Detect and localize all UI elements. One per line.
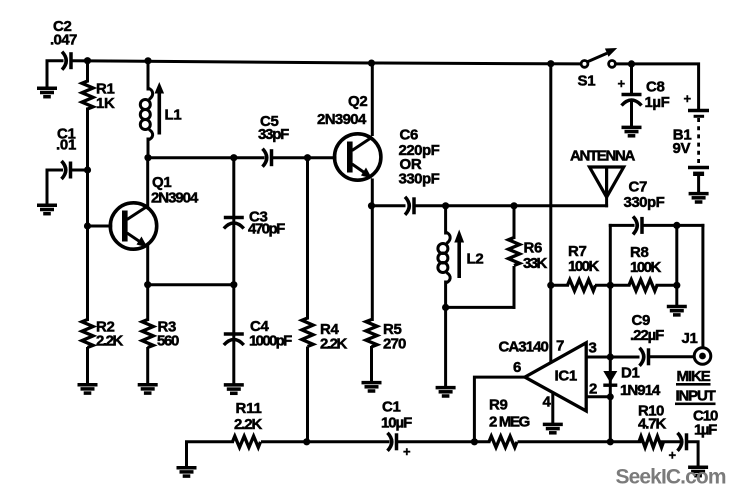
svg-text:.047: .047 xyxy=(50,32,77,49)
svg-text:+: + xyxy=(669,448,677,463)
wire C9 to J1 xyxy=(650,355,695,358)
svg-text:C7: C7 xyxy=(629,179,648,196)
svg-text:3: 3 xyxy=(589,340,597,357)
svg-text:2.2K: 2.2K xyxy=(234,416,262,433)
wire C1 left lead and ground drop xyxy=(47,170,62,204)
wire Q1 emitter drop xyxy=(146,246,149,285)
svg-text:33K: 33K xyxy=(523,255,547,272)
svg-text:.22µF: .22µF xyxy=(630,327,664,344)
svg-text:C6: C6 xyxy=(400,127,419,144)
svg-text:330pF: 330pF xyxy=(624,194,665,211)
wire output row y=205.8 xyxy=(372,204,405,207)
svg-text:4.7K: 4.7K xyxy=(638,416,666,433)
svg-text:R6: R6 xyxy=(524,240,543,257)
svg-text:Q2: Q2 xyxy=(348,93,367,110)
resistor R1 xyxy=(82,81,115,113)
ground C10 xyxy=(688,467,708,475)
battery B1 xyxy=(673,91,710,174)
node MIKE INPUT label xyxy=(675,368,716,405)
wire antenna lead xyxy=(605,197,608,206)
resistor R5 xyxy=(366,320,406,353)
svg-text:IC1: IC1 xyxy=(555,368,577,385)
wire op-amp pin 4 ground xyxy=(551,393,554,423)
svg-text:2.2K: 2.2K xyxy=(320,336,347,353)
ground C1 xyxy=(37,205,57,213)
svg-text:2: 2 xyxy=(589,381,597,398)
wire Q1 base xyxy=(88,225,111,228)
ground L2 xyxy=(436,388,456,396)
svg-text:C8: C8 xyxy=(646,79,665,96)
capacitor C1 10uF xyxy=(381,399,412,460)
svg-text:J1: J1 xyxy=(682,330,698,347)
capacitor C7 xyxy=(624,179,665,235)
wire op-amp pin 2 xyxy=(586,395,610,398)
wire top rail right of S1 xyxy=(616,64,699,108)
svg-text:2N3904: 2N3904 xyxy=(317,111,367,128)
svg-text:4: 4 xyxy=(543,394,552,411)
ground R5 xyxy=(362,383,382,391)
wire bottom rail xyxy=(187,442,233,466)
wire V+ column to op-amp pin 7 xyxy=(549,64,552,362)
wire L2 leads xyxy=(444,206,447,233)
wire op-amp pin 6 feedback xyxy=(474,377,525,442)
resistor R10 xyxy=(638,403,666,448)
wire oscillator row y=158 xyxy=(148,156,263,159)
wire C4 branch xyxy=(232,285,235,383)
svg-text:1K: 1K xyxy=(96,95,115,112)
wire R4 branch xyxy=(306,158,309,318)
wire R1/R2 vertical column xyxy=(86,61,89,81)
wire op-amp pin 3 xyxy=(586,356,638,359)
svg-text:R9: R9 xyxy=(489,397,508,414)
wire R6 leads xyxy=(513,206,516,238)
svg-text:10µF: 10µF xyxy=(381,415,412,432)
svg-text:2 MEG: 2 MEG xyxy=(489,414,530,431)
svg-text:R11: R11 xyxy=(236,400,262,417)
svg-text:C1: C1 xyxy=(382,399,401,416)
capacitor C2 xyxy=(50,18,77,70)
svg-text:6: 6 xyxy=(513,359,521,376)
svg-text:100K: 100K xyxy=(630,259,661,276)
svg-text:CA3140: CA3140 xyxy=(499,339,549,356)
svg-text:470pF: 470pF xyxy=(248,221,285,238)
inductor L1 xyxy=(140,82,164,140)
wire B1 bottom lead xyxy=(697,176,700,192)
svg-text:D1: D1 xyxy=(621,365,640,382)
ground C8 xyxy=(622,127,642,135)
svg-text:Q1: Q1 xyxy=(152,174,171,191)
ground C4 xyxy=(224,385,244,393)
resistor R3 xyxy=(142,319,179,350)
svg-text:1N914: 1N914 xyxy=(620,382,661,399)
capacitor C6 xyxy=(399,127,440,215)
wire R8 right ground branch xyxy=(675,225,678,303)
ground pin4 xyxy=(543,424,563,432)
svg-text:L2: L2 xyxy=(467,251,484,268)
svg-text:330pF: 330pF xyxy=(399,171,440,188)
svg-text:+: + xyxy=(403,444,411,459)
capacitor C10 xyxy=(669,408,719,463)
svg-text:MIKE: MIKE xyxy=(677,368,711,385)
svg-text:ANTENNA: ANTENNA xyxy=(570,148,635,165)
resistor R7 xyxy=(568,243,600,291)
op-amp U1 (IC1 CA3140) xyxy=(499,338,598,412)
capacitor C4 (vertical) xyxy=(224,318,292,350)
wire R7/R8 feedback row y=285.3 xyxy=(551,284,568,287)
resistor R9 xyxy=(489,397,530,448)
resistor R8 xyxy=(629,244,661,291)
svg-text:SeekIC.com: SeekIC.com xyxy=(616,466,727,489)
svg-text:+: + xyxy=(684,91,692,106)
resistor R2 xyxy=(82,319,124,350)
antenna xyxy=(590,167,624,197)
svg-text:2N3904: 2N3904 xyxy=(151,190,199,207)
wire Q1 collector riser xyxy=(146,158,149,207)
wire C7/R8 junction riser xyxy=(609,225,612,285)
inductor L2 xyxy=(438,230,464,284)
ground C2 xyxy=(37,88,57,96)
wire Q2 collector riser xyxy=(371,63,374,135)
svg-text:+: + xyxy=(618,76,626,91)
svg-text:7: 7 xyxy=(556,338,564,355)
wire C8 leads xyxy=(630,64,633,93)
capacitor C8 (vertical) xyxy=(618,76,670,111)
wire R3 branch xyxy=(146,285,149,320)
resistor R11 xyxy=(233,400,263,447)
wire J1 riser xyxy=(701,225,704,347)
connector J1 xyxy=(682,330,711,364)
wire C7 top row y=225.4 xyxy=(610,224,633,227)
svg-text:INPUT: INPUT xyxy=(676,388,716,405)
ground bottom left xyxy=(177,468,197,476)
wire D1 column xyxy=(609,285,612,442)
wire Q2 emitter / R5 branch xyxy=(371,180,374,320)
transistor Q2 xyxy=(317,93,381,180)
wire emitter row y=284.7 xyxy=(148,283,234,286)
svg-text:1000pF: 1000pF xyxy=(249,333,292,350)
ground R3 xyxy=(138,385,158,393)
transistor Q1 xyxy=(110,174,199,249)
switch S1 xyxy=(578,48,618,90)
wire top rail left of S1 xyxy=(73,61,581,64)
svg-text:2.2K: 2.2K xyxy=(96,333,123,350)
svg-text:33pF: 33pF xyxy=(258,126,289,143)
resistor R4 xyxy=(302,318,348,353)
wire L2 ground drop xyxy=(444,307,447,385)
svg-text:L1: L1 xyxy=(165,107,182,124)
wire L2/R6 bottom tie xyxy=(446,306,514,309)
resistor R6 xyxy=(508,238,547,273)
svg-text:270: 270 xyxy=(383,336,406,353)
ground R8 xyxy=(667,307,687,315)
ground R2 xyxy=(78,385,98,393)
wire C2 left lead and ground drop xyxy=(47,61,62,87)
svg-text:1µF: 1µF xyxy=(645,94,670,111)
svg-text:1µF: 1µF xyxy=(694,422,717,439)
wire L1 leads xyxy=(147,61,150,89)
svg-text:9V: 9V xyxy=(673,140,691,157)
svg-text:100K: 100K xyxy=(568,258,599,275)
capacitor C3 (vertical) xyxy=(224,209,285,238)
svg-text:S1: S1 xyxy=(578,73,596,90)
wire C3 branch xyxy=(232,158,235,285)
wire C1 to column xyxy=(72,169,88,172)
svg-text:.01: .01 xyxy=(56,137,76,154)
svg-text:560: 560 xyxy=(157,333,179,350)
diode D1 xyxy=(603,365,661,400)
ground B1 xyxy=(689,194,709,202)
capacitor C1 xyxy=(56,126,76,180)
capacitor C9 xyxy=(630,312,664,366)
capacitor C5 xyxy=(258,113,289,167)
